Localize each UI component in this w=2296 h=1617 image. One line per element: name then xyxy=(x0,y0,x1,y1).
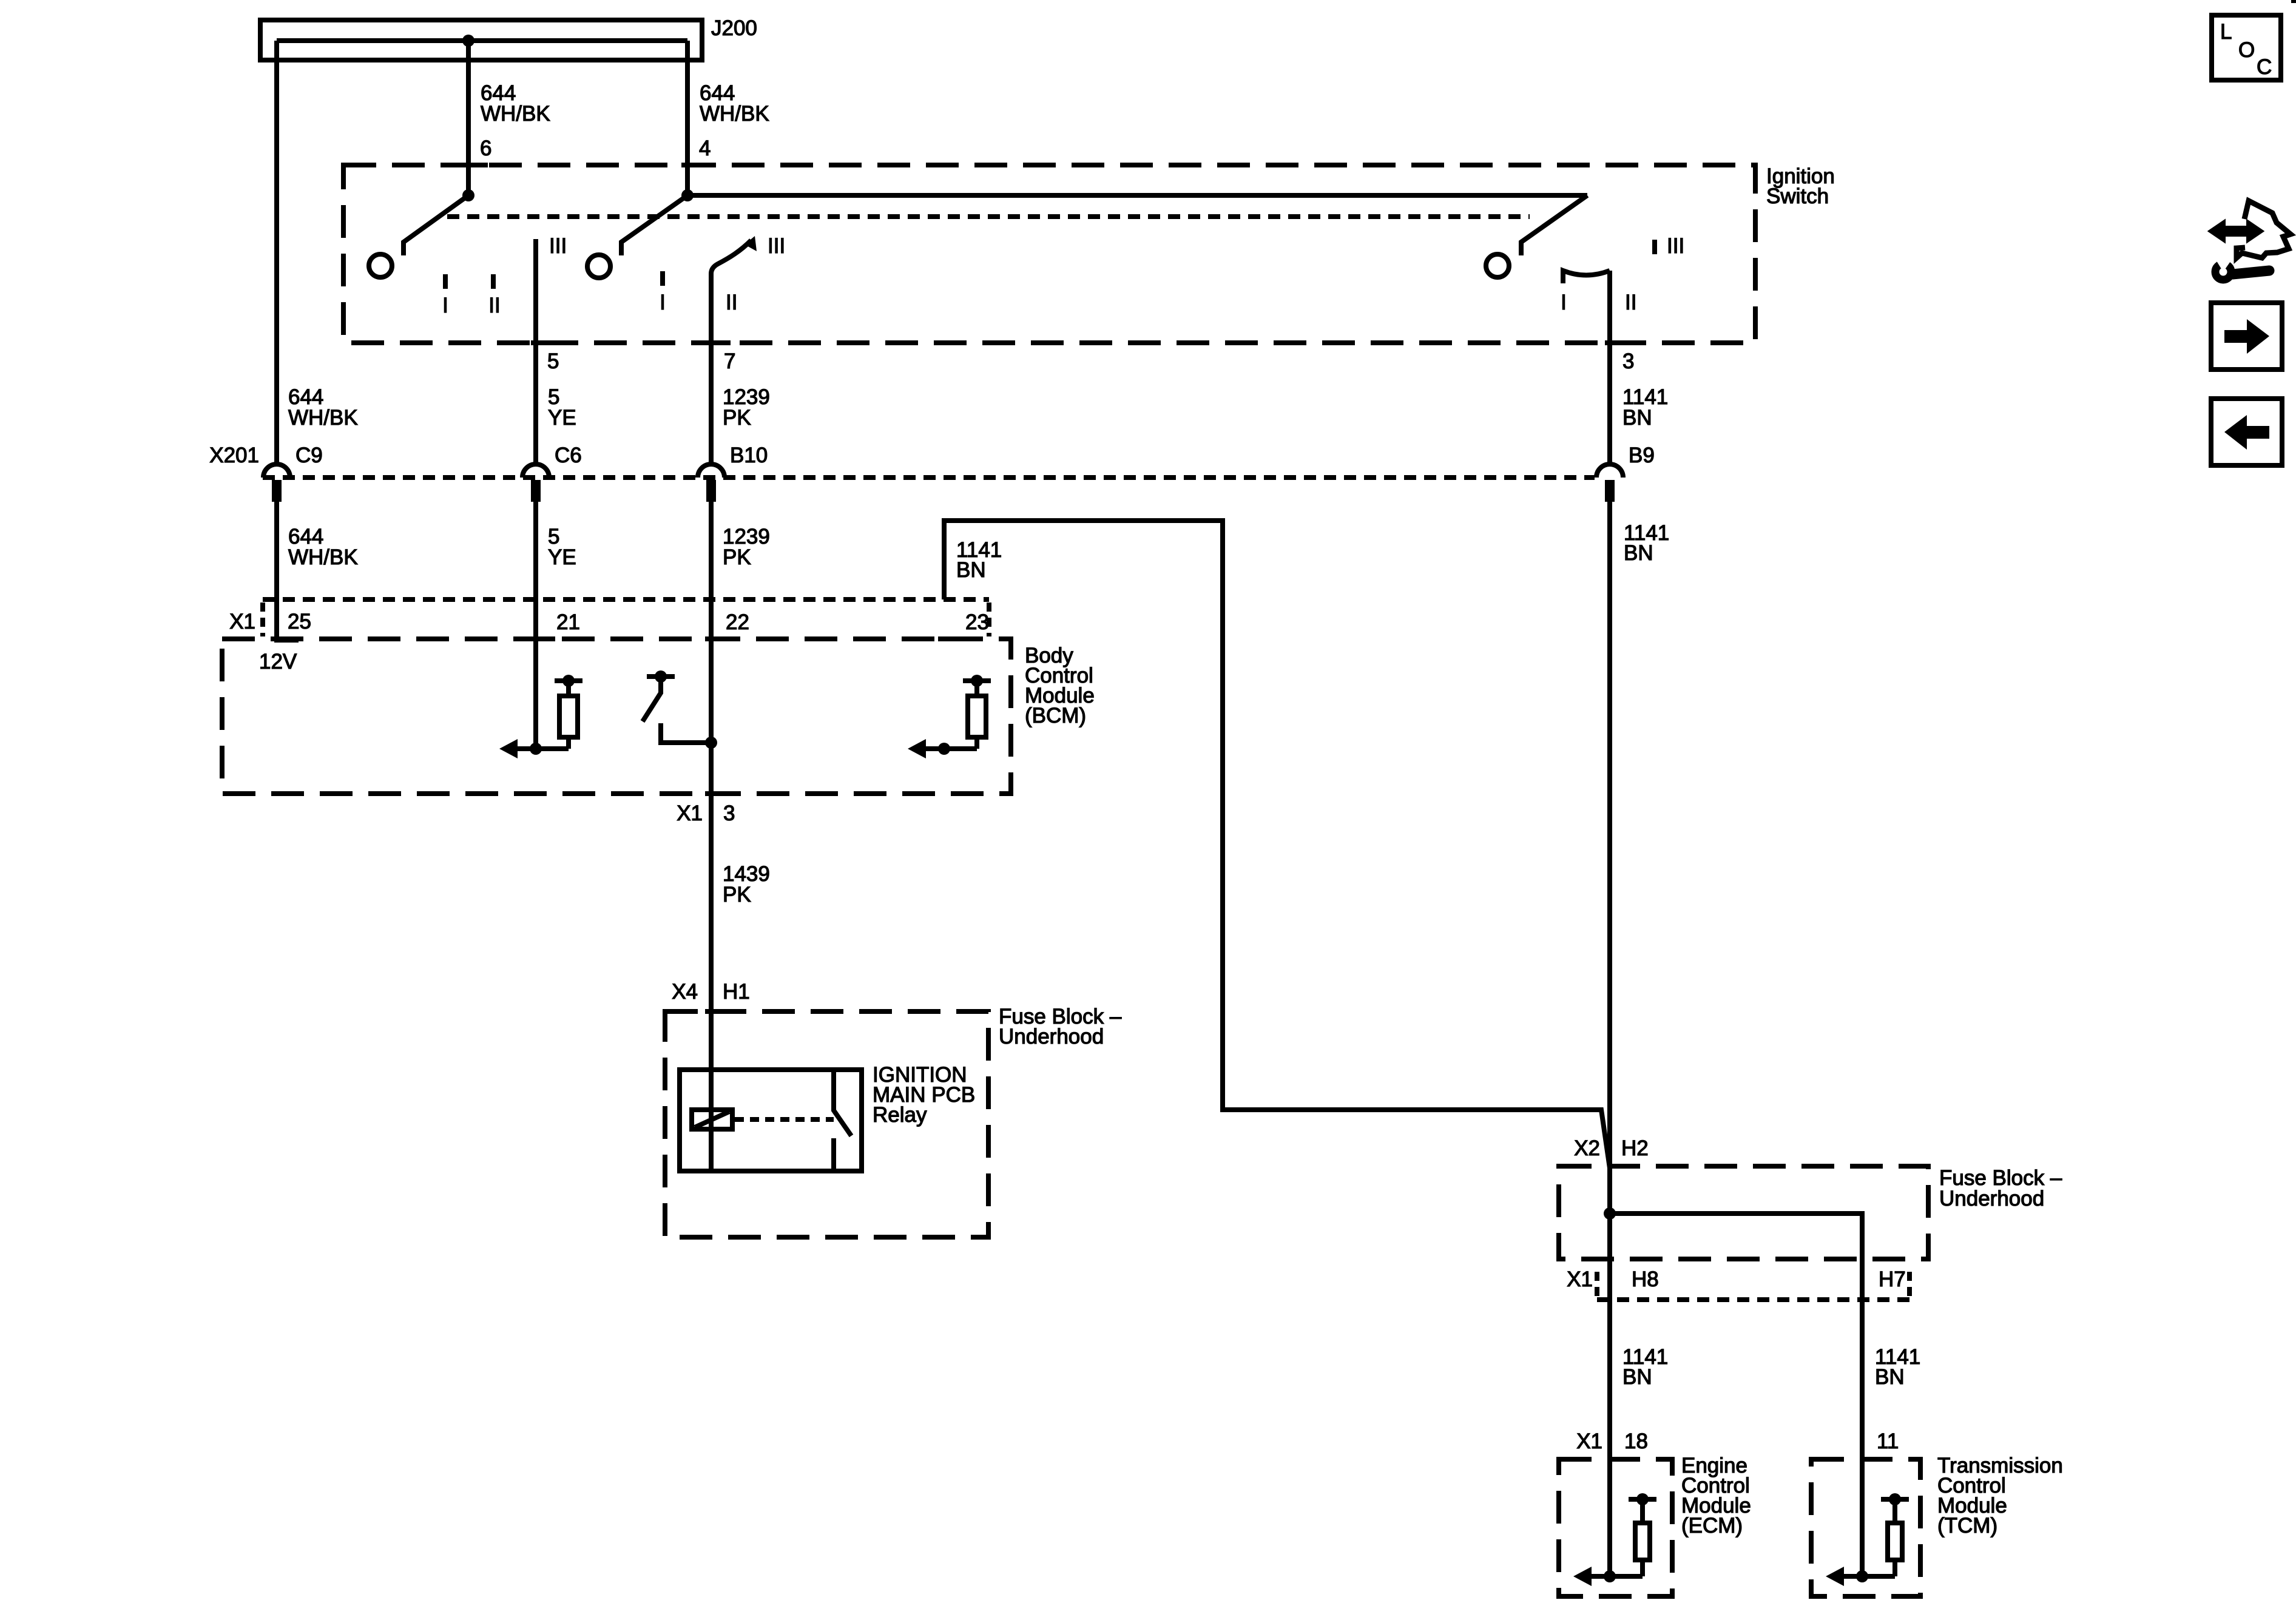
mechanical linkage dotted line xyxy=(447,214,1530,219)
switch 3 pole wire pin 3 xyxy=(1607,271,1612,464)
BCM box xyxy=(222,639,1011,794)
svg-text:BN: BN xyxy=(956,558,986,582)
ECM internal ground arrow xyxy=(1590,1574,1643,1579)
svg-text:Underhood: Underhood xyxy=(1939,1187,2044,1210)
svg-text:III: III xyxy=(768,234,785,258)
svg-text:I: I xyxy=(1561,291,1567,314)
svg-text:18: 18 xyxy=(1624,1430,1648,1453)
fuse X1 row left delimiter xyxy=(1595,1272,1599,1300)
wire 6 drop from J200 to ignition switch xyxy=(466,41,471,195)
svg-text:C6: C6 xyxy=(555,444,582,467)
switch 1 position mark II xyxy=(491,274,496,289)
svg-text:X1: X1 xyxy=(1567,1268,1593,1291)
svg-text:11: 11 xyxy=(1877,1430,1899,1453)
svg-text:I: I xyxy=(442,294,448,317)
pin bar C9 xyxy=(272,480,282,502)
node junction dot on J200 bus xyxy=(462,35,474,47)
connector X1 row of fuse block dotted line xyxy=(1597,1297,1909,1302)
tick wire 21 at BCM top xyxy=(530,636,555,641)
svg-text:L: L xyxy=(2220,20,2232,44)
tick wire 5 at box bottom xyxy=(531,340,555,345)
connector X1 row of BCM dotted line xyxy=(263,597,989,602)
svg-text:H2: H2 xyxy=(1621,1136,1649,1160)
svg-text:6: 6 xyxy=(480,137,491,160)
svg-text:22: 22 xyxy=(726,610,749,634)
svg-text:H7: H7 xyxy=(1879,1268,1906,1291)
svg-text:II: II xyxy=(488,294,500,317)
switch 3 contact circle xyxy=(1486,254,1509,277)
ignition switch box xyxy=(343,165,1755,343)
pin bar B10 xyxy=(706,480,716,502)
wire 4 drop from J200 to ignition switch xyxy=(685,41,690,195)
svg-text:III: III xyxy=(549,234,567,258)
wire 644 WH/BK left drop from J200 to X201 C9 xyxy=(274,41,279,464)
svg-text:21: 21 xyxy=(556,610,580,634)
svg-text:PK: PK xyxy=(723,406,751,430)
BCM pin 21 internal: ground arrow xyxy=(516,746,569,751)
X1 row right delimiter xyxy=(987,603,991,636)
service icon wrench xyxy=(2233,271,2269,274)
TCM internal resistor xyxy=(1893,1560,1897,1576)
tick wire 1439 at fuse block top xyxy=(705,1009,731,1014)
wire 1141 BN branch to BCM pin 23 xyxy=(944,521,1610,1168)
ECM internal resistor xyxy=(1640,1560,1645,1576)
svg-text:23: 23 xyxy=(965,610,989,634)
connector X201 row dashed line xyxy=(263,475,1595,480)
tick wire 23 at BCM top xyxy=(938,636,964,641)
svg-text:X2: X2 xyxy=(1574,1136,1600,1160)
tick wire 7 at box bottom xyxy=(706,340,731,345)
switch 1 contact circle xyxy=(369,254,392,277)
svg-text:C9: C9 xyxy=(295,444,323,467)
svg-text:WH/BK: WH/BK xyxy=(481,102,550,126)
svg-text:PK: PK xyxy=(723,883,751,906)
wire 1239 PK below X201 xyxy=(709,499,714,1171)
node ECM junction xyxy=(1604,1570,1616,1582)
relay coil xyxy=(692,1110,732,1129)
TCM internal ground arrow xyxy=(1843,1574,1895,1579)
svg-text:(ECM): (ECM) xyxy=(1681,1514,1743,1538)
connector bump C6 xyxy=(522,464,549,478)
svg-text:WH/BK: WH/BK xyxy=(700,102,769,126)
page corner mark xyxy=(2291,0,2296,3)
svg-text:X201: X201 xyxy=(209,444,259,467)
wire link from switch 2 pivot to switch 3 xyxy=(687,193,1587,198)
svg-text:X1: X1 xyxy=(229,610,255,633)
switch 1 blade xyxy=(403,195,468,255)
ECM box xyxy=(1559,1459,1672,1596)
tick wire 25 end at BCM top xyxy=(274,638,299,643)
svg-text:X4: X4 xyxy=(672,980,698,1004)
TCM box xyxy=(1811,1459,1920,1596)
forward arrow box icon xyxy=(2211,303,2282,370)
svg-text:WH/BK: WH/BK xyxy=(288,545,358,569)
BCM pin 22 internal switch xyxy=(647,674,675,679)
svg-text:(TCM): (TCM) xyxy=(1937,1514,1997,1538)
relay switch contact xyxy=(834,1070,851,1136)
svg-text:C: C xyxy=(2257,55,2272,79)
svg-text:II: II xyxy=(1625,291,1636,314)
svg-text:B9: B9 xyxy=(1629,444,1655,467)
svg-text:I: I xyxy=(660,291,666,314)
svg-text:3: 3 xyxy=(723,802,735,825)
wire 5 YE below X201 xyxy=(533,499,538,749)
svg-text:III: III xyxy=(1667,234,1684,258)
node TCM junction xyxy=(1856,1570,1868,1582)
arrowhead to position III xyxy=(745,236,757,251)
node pin 23 junction xyxy=(938,743,950,755)
tick wire 22 at BCM top xyxy=(705,636,731,641)
pin bar C6 xyxy=(531,480,541,502)
node junction H2 split xyxy=(1604,1207,1616,1220)
switch 2 pole wire pin 7 with curved arrow xyxy=(711,240,751,343)
node switch 2 pivot xyxy=(681,189,694,201)
LOC reference box icon xyxy=(2212,15,2281,80)
switch 1 pole wire pin 5 xyxy=(533,239,538,464)
svg-text:II: II xyxy=(726,291,737,314)
svg-text:J200: J200 xyxy=(711,16,757,40)
tick wire 22 at BCM bottom xyxy=(705,791,731,796)
service icon double arrow xyxy=(2210,222,2261,240)
svg-text:H8: H8 xyxy=(1632,1268,1659,1291)
svg-text:BN: BN xyxy=(1622,1365,1652,1389)
svg-text:7: 7 xyxy=(724,349,735,373)
svg-text:Switch: Switch xyxy=(1766,184,1829,208)
svg-text:YE: YE xyxy=(548,406,576,430)
node switch 1 pivot xyxy=(462,189,474,201)
svg-text:B10: B10 xyxy=(730,444,768,467)
svg-text:YE: YE xyxy=(548,545,576,569)
wire bus inside J200 xyxy=(277,38,687,43)
wire to H7 xyxy=(1610,1214,1862,1576)
node pin 21 junction xyxy=(530,743,542,755)
svg-text:Relay: Relay xyxy=(873,1103,927,1127)
BCM pin 23 internal resistor xyxy=(974,737,979,749)
tick wire 3 at box bottom xyxy=(1605,340,1629,345)
svg-text:WH/BK: WH/BK xyxy=(288,406,358,430)
BCM pin 23 internal: ground arrow xyxy=(925,746,977,751)
fuse X1 row right delimiter xyxy=(1907,1272,1912,1300)
BCM pin 21 internal resistor xyxy=(566,737,571,749)
fuse block underhood right box xyxy=(1559,1166,1928,1259)
switch 3 position mark III xyxy=(1652,240,1657,254)
svg-text:(BCM): (BCM) xyxy=(1025,704,1086,727)
service icon part outline xyxy=(2237,201,2291,258)
relay box IGNITION MAIN PCB xyxy=(680,1070,862,1171)
svg-text:25: 25 xyxy=(288,610,311,633)
back arrow box icon xyxy=(2211,399,2282,465)
wire 1141 BN below B9 xyxy=(1607,499,1612,1576)
switch 2 position mark I xyxy=(660,271,665,286)
X1 row left delimiter xyxy=(260,603,265,636)
svg-text:X1: X1 xyxy=(1576,1430,1602,1453)
tick wire 6 at box top xyxy=(462,163,488,167)
svg-text:BN: BN xyxy=(1624,541,1653,565)
svg-text:3: 3 xyxy=(1622,349,1634,373)
junction block J200 xyxy=(260,20,702,60)
connector bump C9 xyxy=(263,464,290,478)
tick wire 4 at box top xyxy=(681,163,707,167)
switch 1 position mark I xyxy=(443,274,448,289)
svg-text:H1: H1 xyxy=(723,980,750,1004)
svg-text:BN: BN xyxy=(1875,1365,1905,1389)
svg-text:4: 4 xyxy=(699,137,711,160)
svg-text:5: 5 xyxy=(547,349,559,373)
svg-text:O: O xyxy=(2238,38,2255,62)
svg-text:X1: X1 xyxy=(677,802,703,825)
svg-text:Underhood: Underhood xyxy=(999,1025,1104,1048)
svg-text:BN: BN xyxy=(1622,406,1652,430)
connector bump B9 xyxy=(1596,464,1623,478)
svg-text:12V: 12V xyxy=(259,650,297,673)
relay linkage dotted xyxy=(735,1117,834,1122)
switch 3 pole contact arc pin 3 xyxy=(1563,271,1610,283)
svg-text:PK: PK xyxy=(723,545,751,569)
wire 644 WH/BK below X201 xyxy=(274,499,279,640)
fuse block underhood left box xyxy=(665,1011,988,1237)
connector bump B10 xyxy=(698,464,724,478)
switch 3 blade xyxy=(1521,195,1587,255)
switch 2 contact circle xyxy=(587,255,610,278)
pin bar B9 xyxy=(1605,480,1615,502)
switch 2 blade xyxy=(621,195,687,255)
